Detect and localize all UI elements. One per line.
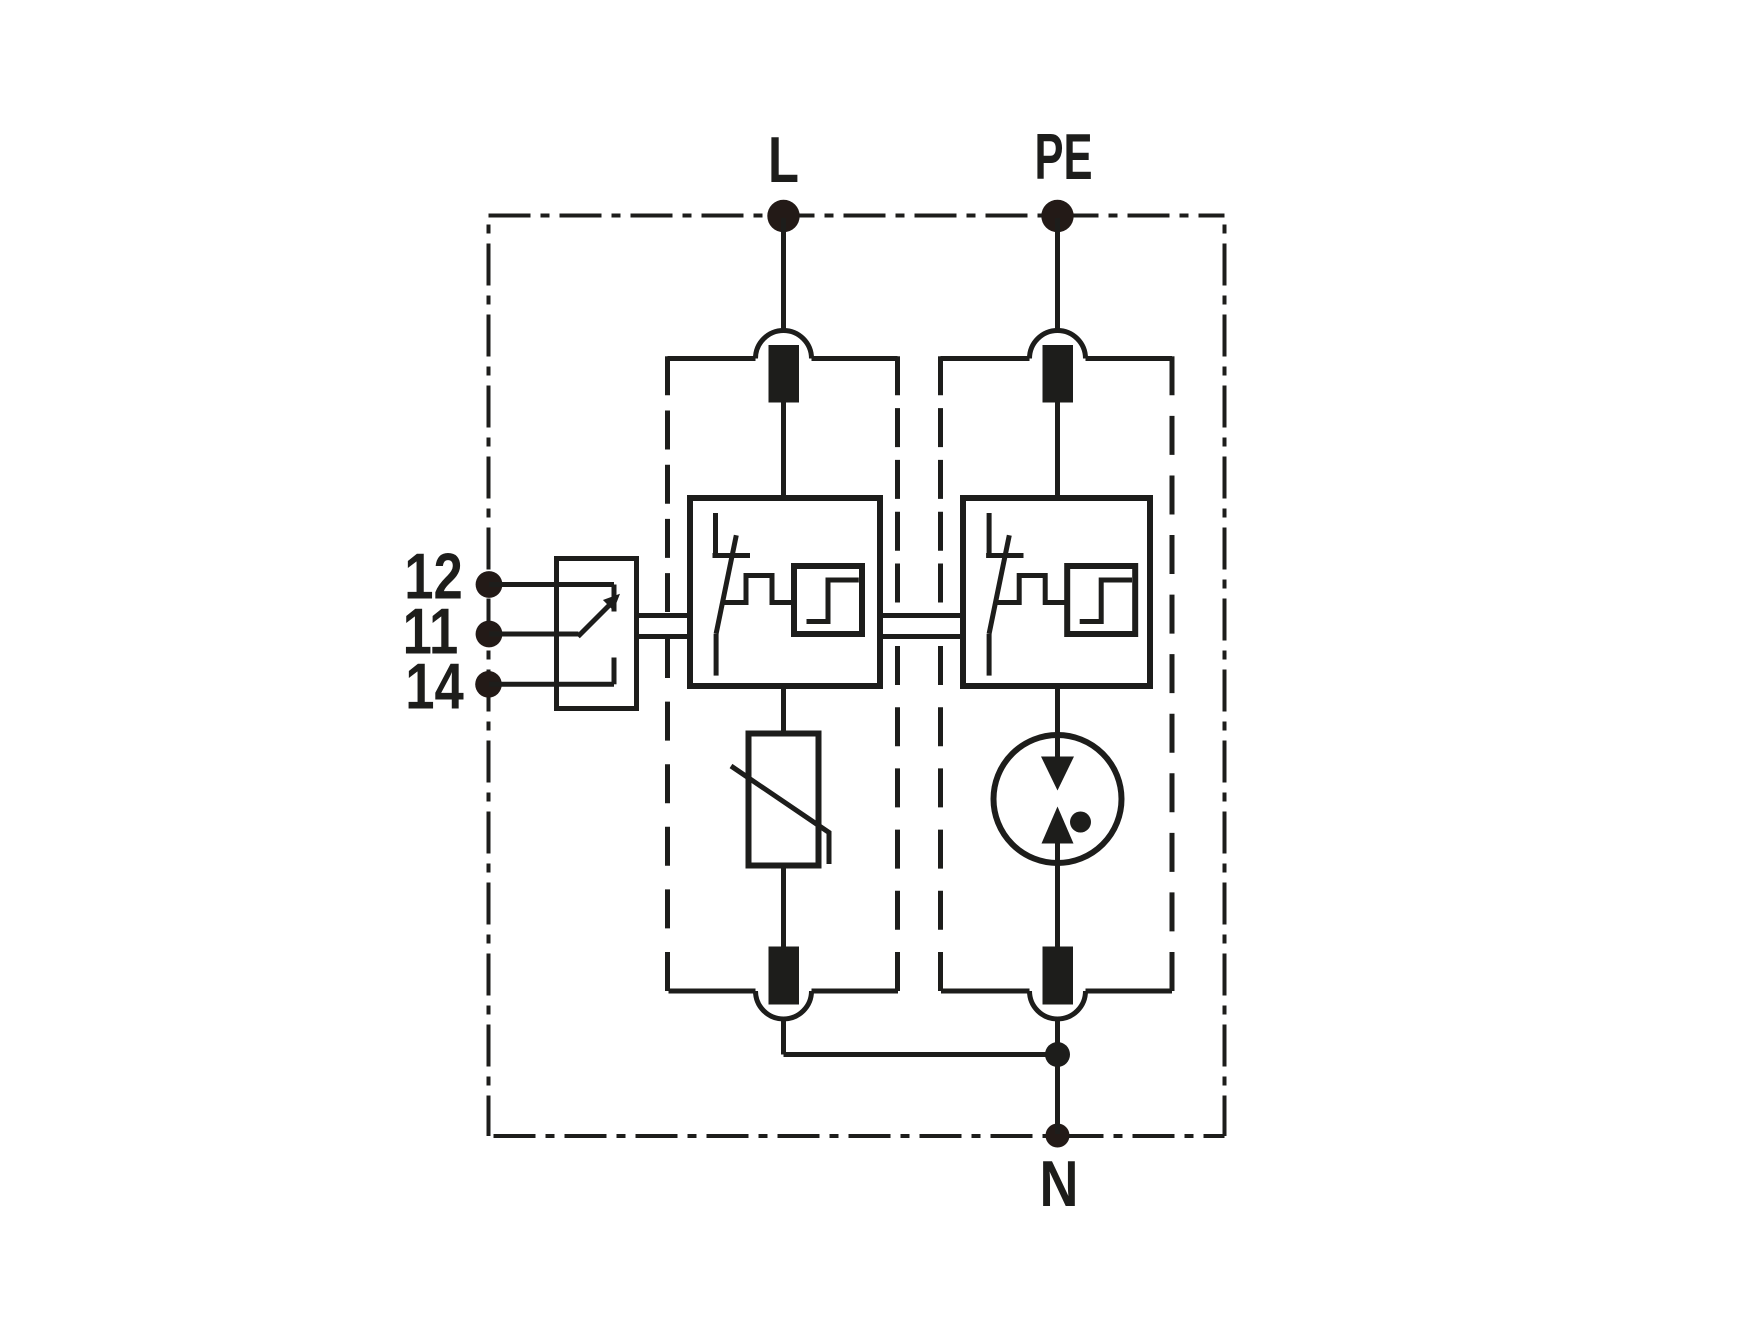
- terminal dot L: [767, 200, 799, 232]
- wire contact 11: [489, 632, 579, 637]
- wire module 2 bottom contact to junction: [1055, 1018, 1060, 1056]
- svg-text:14: 14: [405, 649, 464, 723]
- enclosure border bottom (dash-dot): [489, 1134, 1225, 1138]
- gas filling dot: [1070, 812, 1091, 833]
- disconnector 1 blade: [716, 535, 736, 634]
- remote signalling contact box: [557, 559, 637, 709]
- gas discharge tube circle: [994, 735, 1122, 863]
- enclosure border left (dash-dot): [487, 216, 491, 1137]
- disconnector 2 contact tick: [986, 553, 1023, 558]
- contact 14 stub: [612, 658, 617, 685]
- svg-text:PE: PE: [1034, 120, 1092, 193]
- mechanical link lower line (module 1 to module 2): [880, 634, 963, 639]
- disconnector 1 upper contact: [713, 513, 718, 558]
- disconnector 1 contact tick: [713, 553, 751, 558]
- enclosure border top (dash-dot): [489, 214, 1225, 218]
- module 1 bottom edge: [669, 989, 756, 994]
- svg-text:L: L: [768, 124, 799, 196]
- module 2 dashed right border: [1170, 356, 1175, 991]
- terminal dot N: [1046, 1124, 1070, 1148]
- terminal dot 12: [476, 571, 503, 598]
- mechanical link upper line (module 1 to module 2): [880, 613, 963, 618]
- wire spark gap to bottom contact: [1055, 843, 1060, 947]
- contact 12 stub: [612, 585, 617, 612]
- terminal dot PE: [1041, 200, 1073, 232]
- wire monitoring box 1 to varistor: [781, 686, 786, 734]
- module 2 top plug-in contact arc: [1030, 331, 1086, 359]
- monitoring box 2 (thermal disconnector with status indication): [963, 498, 1150, 686]
- wire module 1 bottom contact down: [781, 1018, 786, 1055]
- monitoring box 1 (thermal disconnector with status indication): [690, 498, 880, 686]
- disconnector 1 lower contact: [714, 634, 719, 676]
- module 2 top plug-in contact blade: [1043, 345, 1074, 403]
- disconnector 2 blade: [989, 535, 1009, 634]
- changeover switch blade: [578, 604, 611, 637]
- wire PE terminal down: [1055, 218, 1060, 331]
- svg-text:N: N: [1040, 1147, 1079, 1220]
- wire varistor to bottom contact: [781, 866, 786, 948]
- surge waveform symbol 1: [724, 576, 795, 603]
- trip characteristic box 1: [794, 566, 862, 634]
- varistor diagonal stroke: [731, 766, 829, 864]
- trip characteristic box 2: [1067, 566, 1135, 634]
- wire contact to monitoring box 1: [781, 402, 786, 499]
- module 1 (varistor protection module) dashed left border: [665, 356, 670, 612]
- module 1 top edge: [668, 356, 756, 361]
- gas discharge tube upper electrode triangle: [1041, 757, 1074, 791]
- mechanical link upper line (switch to module 1): [637, 613, 691, 618]
- module 2 bottom plug-in contact blade: [1043, 947, 1074, 1005]
- surge waveform symbol 2: [997, 576, 1067, 603]
- wire L terminal down: [781, 218, 786, 331]
- disconnector 2 upper contact: [987, 513, 992, 558]
- enclosure border right (dash-dot): [1223, 216, 1227, 1137]
- trip step curve 1: [807, 580, 859, 622]
- terminal dot 11: [476, 621, 503, 648]
- module 2 top edge: [941, 356, 1030, 361]
- wire junction to N terminal: [1055, 1055, 1060, 1135]
- module 1 top plug-in contact blade: [769, 345, 800, 403]
- gas discharge tube lower electrode triangle: [1042, 807, 1074, 844]
- module 1 top plug-in contact arc: [756, 331, 812, 359]
- junction node: [1045, 1042, 1070, 1067]
- wire contact 12: [489, 582, 614, 587]
- wire monitoring box 2 to spark gap: [1055, 686, 1060, 760]
- module 1 bottom plug-in contact arc: [756, 991, 812, 1019]
- mechanical link lower line (switch to module 1): [637, 634, 691, 639]
- module 1 dashed right border: [895, 356, 900, 602]
- varistor MOV: [749, 734, 819, 866]
- module 2 bottom plug-in contact arc: [1030, 991, 1086, 1019]
- module 2 (spark-gap protection module) dashed left border: [938, 356, 943, 602]
- wire contact 14: [489, 682, 614, 687]
- trip step curve 2: [1080, 580, 1132, 622]
- disconnector 2 lower contact: [987, 634, 992, 676]
- changeover switch arrowhead: [603, 594, 620, 611]
- module 1 bottom plug-in contact blade: [769, 947, 800, 1005]
- module 2 bottom edge: [941, 989, 1030, 994]
- wire bottom horizontal to N: [784, 1052, 1058, 1057]
- wire contact to monitoring box 2: [1055, 402, 1060, 499]
- terminal dot 14: [475, 671, 502, 698]
